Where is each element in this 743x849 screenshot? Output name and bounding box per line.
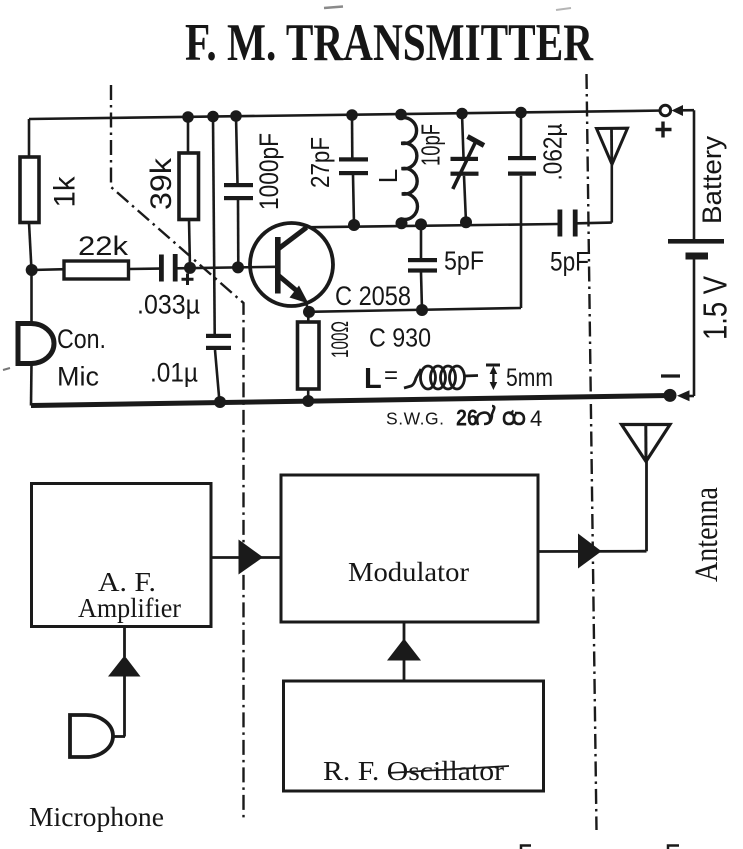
node top rail A xyxy=(182,111,194,123)
svg-text:4: 4 xyxy=(530,406,542,431)
node tank coil bottom xyxy=(396,217,408,229)
capacitor C1 .033u polarized xyxy=(137,254,200,320)
dash-dot boundary line left xyxy=(111,85,244,818)
node emitter xyxy=(303,306,315,318)
block A.F. Amplifier xyxy=(32,484,212,627)
wire C2 bottom lead xyxy=(215,350,220,402)
wire .062u bottom lead xyxy=(520,176,523,308)
wire 27pF top lead xyxy=(351,115,354,158)
title F. M. TRANSMITTER xyxy=(185,14,594,72)
scan artifact dashes xyxy=(324,7,571,11)
node top rail 10pF xyxy=(456,108,468,120)
label C930 xyxy=(369,323,431,353)
capacitor C7 5pF xyxy=(408,246,484,276)
svg-text:27pF: 27pF xyxy=(305,137,335,188)
wire C1 to base node xyxy=(178,267,277,269)
node top rail .062u xyxy=(515,107,527,119)
wire mic to bottom rail xyxy=(30,364,33,406)
wire 39k top lead xyxy=(187,117,190,154)
transistor Q1 C2058 xyxy=(250,223,411,312)
wire left vertical to 1k xyxy=(28,119,31,158)
svg-text:Battery: Battery xyxy=(697,135,727,224)
resistor R1 1k xyxy=(20,157,81,223)
capacitor C4 27pF xyxy=(305,137,368,188)
svg-text:5pF: 5pF xyxy=(444,246,484,276)
capacitor C8 5pF series xyxy=(550,210,589,277)
wire 5pF-left bottom lead xyxy=(421,273,422,311)
resistor R4 100ohm xyxy=(298,321,354,389)
microphone MIC2 block xyxy=(29,715,164,832)
node tank 10pF xyxy=(460,216,472,228)
node junction left xyxy=(26,264,38,276)
wire 100ohm top lead xyxy=(307,312,310,323)
wire 22k to C1 xyxy=(129,267,161,270)
wire battery right vertical top xyxy=(693,110,696,239)
wire mic to AF with arrow xyxy=(108,627,141,737)
antenna circuit symbol xyxy=(597,128,628,164)
wire C8 to antenna xyxy=(578,221,612,224)
svg-text:10pF: 10pF xyxy=(415,124,445,166)
wire bottom rail xyxy=(31,396,670,406)
node base junction xyxy=(232,261,244,273)
arrow into positive terminal xyxy=(672,105,695,116)
wire AF to Modulator with arrow xyxy=(211,540,281,575)
node top rail coil xyxy=(395,109,407,121)
node top rail D xyxy=(346,109,358,121)
resistor R2 22k xyxy=(64,231,129,279)
wire tank line xyxy=(304,224,558,227)
capacitor C3 1000pF xyxy=(224,133,284,210)
wire 5pF-left top lead xyxy=(420,224,423,258)
microphone MIC1 condenser xyxy=(3,324,106,392)
antenna block symbol xyxy=(622,425,726,583)
svg-text:.062µ: .062µ xyxy=(537,123,567,180)
svg-text:L: L xyxy=(373,169,403,183)
svg-text:22k: 22k xyxy=(78,231,129,261)
arrow into negative rail xyxy=(677,390,694,401)
coil legend L = xyxy=(364,362,478,395)
wire bypass vertical xyxy=(213,117,215,335)
capacitor C5 10pF variable xyxy=(415,124,484,189)
wire Modulator to antenna with arrow xyxy=(538,534,647,569)
label S.W.G. 26 wire gauge xyxy=(386,405,542,432)
svg-text:.033µ: .033µ xyxy=(137,290,200,320)
svg-text:=: = xyxy=(384,362,398,389)
wire node to 22k xyxy=(32,268,65,271)
svg-text:S.W.G.: S.W.G. xyxy=(386,409,444,429)
wire 10pF bottom lead xyxy=(464,176,466,223)
wire left mic branch xyxy=(30,270,33,323)
capacitor C2 .01u xyxy=(150,334,231,388)
wire .062u top lead xyxy=(520,113,523,158)
svg-text:1000pF: 1000pF xyxy=(254,133,284,210)
wire 39k bottom lead xyxy=(189,220,190,268)
wire 27pF bottom lead xyxy=(353,175,354,225)
svg-text:1.5 V: 1.5 V xyxy=(697,276,734,340)
svg-text:C 2058: C 2058 xyxy=(335,281,411,311)
resistor R3 39k xyxy=(145,153,199,220)
node bottom rail left xyxy=(214,396,226,408)
svg-text:1k: 1k xyxy=(48,176,81,208)
capacitor C6 .062u xyxy=(508,123,567,180)
dimension 5mm xyxy=(486,364,553,392)
dash-dot boundary line right xyxy=(587,74,597,830)
terminal open circle positive xyxy=(660,105,671,116)
wire battery right vertical bottom xyxy=(693,260,696,397)
battery BT1 xyxy=(656,122,734,377)
node tank 5pF left xyxy=(415,218,427,230)
wire 100ohm bottom lead xyxy=(307,389,310,401)
svg-text:5pF: 5pF xyxy=(550,247,589,277)
svg-text:Modulator: Modulator xyxy=(348,557,469,587)
wire antenna vertical xyxy=(610,164,613,223)
svg-text:Con.: Con. xyxy=(57,324,106,354)
svg-text:26: 26 xyxy=(456,405,478,431)
wire Oscillator to Modulator with arrow xyxy=(387,623,421,682)
wire 1000pF bottom lead xyxy=(237,200,240,268)
svg-text:C 930: C 930 xyxy=(369,323,431,353)
node top rail B xyxy=(207,111,219,123)
block Modulator xyxy=(281,475,538,622)
svg-text:Microphone: Microphone xyxy=(29,801,164,832)
node emitter line 5pF xyxy=(416,304,428,316)
svg-text:L: L xyxy=(364,363,382,395)
svg-text:100Ω: 100Ω xyxy=(327,321,354,358)
inductor L1 tank coil xyxy=(373,118,418,221)
node bottom rail emitter xyxy=(302,395,314,407)
bottom edge artifacts xyxy=(521,846,679,849)
wire 1000pF top lead xyxy=(236,116,238,184)
block R.F. Oscillator xyxy=(284,681,544,791)
wire top rail xyxy=(29,111,665,120)
node tank 27pF xyxy=(348,219,360,231)
wire 10pF top lead xyxy=(462,114,464,158)
node bottom rail right end xyxy=(664,389,677,402)
svg-text:Amplifier: Amplifier xyxy=(78,593,181,623)
svg-text:39k: 39k xyxy=(145,157,178,210)
svg-text:5mm: 5mm xyxy=(506,364,553,392)
svg-text:Antenna: Antenna xyxy=(689,487,725,582)
svg-text:.01µ: .01µ xyxy=(150,358,198,388)
svg-text:F. M. TRANSMITTER: F. M. TRANSMITTER xyxy=(185,14,594,72)
node 39k base junction xyxy=(184,262,196,274)
node top rail C xyxy=(230,110,242,122)
wire 1k bottom lead xyxy=(29,223,32,271)
svg-text:Mic: Mic xyxy=(57,362,99,392)
wire emitter line xyxy=(309,308,521,312)
